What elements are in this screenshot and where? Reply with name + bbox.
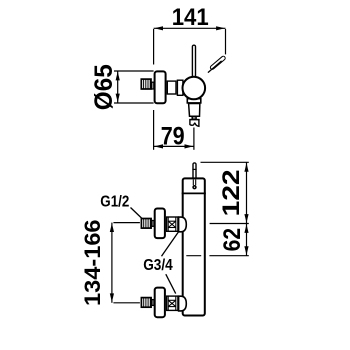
handle slot detail: [192, 180, 194, 186]
outlet tip with break cut (plan): [190, 120, 199, 127]
dimension 122: extension lines: [201, 161, 249, 163]
dimension 141: dimension line with arrows: [154, 27, 226, 29]
outlet step line (plan): [190, 119, 200, 121]
upper stem: [152, 221, 154, 227]
column cap joint line: [182, 192, 206, 194]
svg-text:G3/4: G3/4: [143, 257, 173, 274]
upper supply connection: [141, 209, 186, 239]
dimension 62: dimension line with arrows: [246, 224, 248, 256]
dimension 79: extension line left: [153, 110, 155, 150]
mixer column body (front): [183, 178, 205, 315]
handle rod (plan): [192, 45, 195, 79]
connector section 1 (plan, between escutcheon and union): [167, 81, 176, 94]
lower G3/4 nipple with cross hatch: [167, 296, 178, 310]
collar under valve body (plan): [187, 99, 201, 103]
dimension 141: extension line right: [225, 29, 227, 54]
upper G3/4 nipple with cross hatch: [167, 217, 178, 231]
valve body ball (plan): [183, 77, 206, 100]
dimension 134-166: extension lines: [113, 222, 139, 224]
dimension 141: extension line left: [153, 29, 155, 65]
dimension Ø65: dimension line with arrows: [117, 71, 119, 103]
svg-text:141: 141: [172, 4, 209, 31]
handle break symbol: [210, 55, 226, 70]
outlet body (plan): [189, 104, 200, 117]
lower escutcheon (front): [155, 288, 165, 318]
indicator dot: [193, 186, 196, 189]
supply stem (plan): [152, 82, 154, 89]
connector section 2 (plan, union nut): [177, 80, 183, 95]
upper union dome: [179, 217, 187, 232]
dimension 62: extension line bottom: [209, 255, 248, 257]
column centerline dash: [186, 255, 201, 257]
wall escutcheon (plan, side silhouette): [155, 71, 166, 103]
svg-text:134-166: 134-166: [80, 219, 105, 306]
dimension Ø65: extension lines: [114, 70, 154, 72]
lower union dome: [179, 296, 187, 311]
lower knurled knob: [141, 298, 151, 308]
svg-text:62: 62: [219, 228, 246, 252]
dimension 134-166: dimension line with arrows: [111, 223, 113, 303]
svg-text:Ø65: Ø65: [90, 64, 118, 110]
dimension 79: extension line right: [193, 128, 195, 150]
dimension 79: dimension line with arrows: [154, 145, 194, 147]
upper escutcheon (front): [155, 209, 165, 239]
lower supply connection: [141, 288, 186, 318]
lower stem: [152, 300, 154, 306]
svg-text:G1/2: G1/2: [100, 194, 129, 211]
upper knurled knob G1/2: [141, 219, 151, 229]
handle pin (front): [193, 163, 196, 180]
svg-text:122: 122: [218, 169, 245, 216]
dimension 122: dimension line with arrows: [246, 162, 248, 223]
svg-text:79: 79: [161, 123, 185, 151]
knurled knob G1/2 (plan): [141, 79, 151, 89]
outlet clip box (plan): [192, 117, 196, 119]
